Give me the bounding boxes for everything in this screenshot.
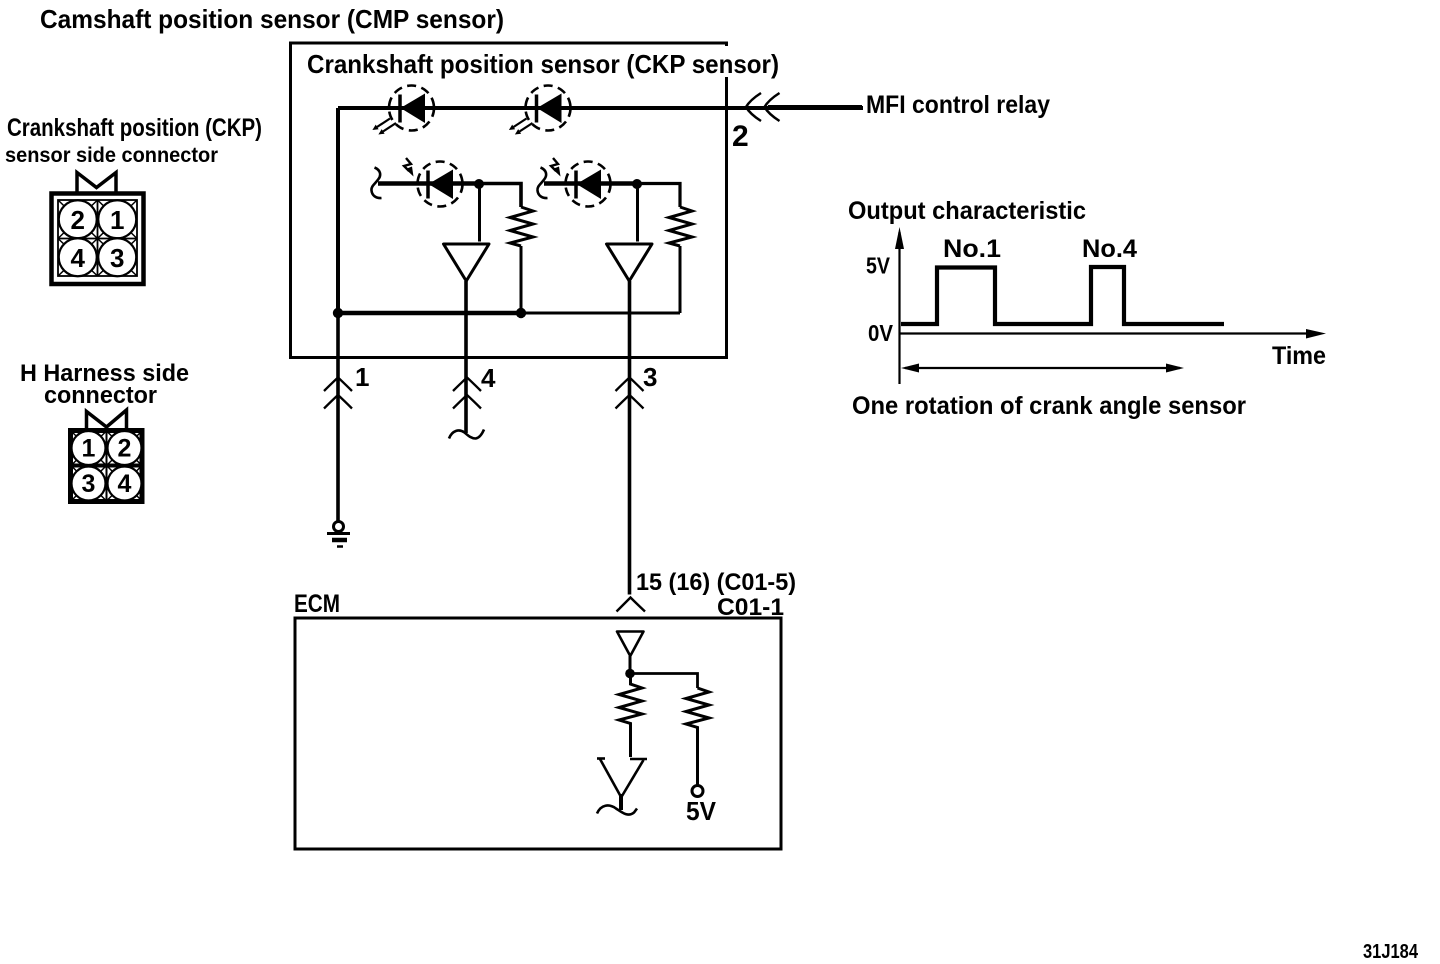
junction node on D4 output <box>632 179 642 189</box>
output waveform <box>901 267 1224 324</box>
op-amp buffer U1 <box>444 244 490 281</box>
svg-text:5V: 5V <box>866 253 891 279</box>
pigtail end of pin 4 <box>449 430 484 439</box>
wire: drop from D4 junction to buffer U2 <box>636 184 639 242</box>
svg-text:3: 3 <box>110 243 124 273</box>
ground symbol inside ECM <box>597 759 647 815</box>
wire: drop from D3 junction to buffer U1 <box>478 184 481 242</box>
label: ECM <box>294 590 340 618</box>
label: 0V level <box>868 320 894 346</box>
svg-text:2: 2 <box>118 435 132 463</box>
wire: top supply bus from MFI relay through LEDs <box>338 106 863 111</box>
wire: U2 output to pin 3 <box>628 281 632 595</box>
svg-text:0V: 0V <box>868 320 894 346</box>
svg-text:One rotation of crank angle se: One rotation of crank angle sensor <box>852 392 1246 420</box>
op-amp buffer U2 <box>607 244 653 281</box>
label: 5V level <box>866 253 891 279</box>
svg-text:15 (16) (C01-5): 15 (16) (C01-5) <box>636 569 796 596</box>
svg-text:ECM: ECM <box>294 590 340 618</box>
resistor R2 <box>669 207 692 313</box>
pin number 4 in sensor connector <box>71 243 86 273</box>
CKP sensor box outline <box>291 43 783 358</box>
svg-text:3: 3 <box>82 470 96 498</box>
CKP sensor side connector drawing <box>52 173 144 285</box>
pin number 1 in sensor connector <box>110 205 124 235</box>
pin number 2 <box>732 120 749 153</box>
label: No.4 pulse <box>1082 235 1137 263</box>
svg-text:5V: 5V <box>686 796 717 826</box>
graph time axis with arrow <box>900 329 1327 339</box>
svg-text:Camshaft position sensor (CMP: Camshaft position sensor (CMP sensor) <box>40 4 504 34</box>
resistor R1 <box>510 207 533 313</box>
buffer U3 inside ECM <box>617 632 644 657</box>
junction node bus left <box>333 308 343 318</box>
junction node bus middle <box>516 308 526 318</box>
pin number 3 in sensor connector <box>110 243 124 273</box>
LED D1 (left light emitting diode) <box>389 86 434 131</box>
svg-text:2: 2 <box>71 205 85 235</box>
label: Crankshaft position sensor (CKP sensor) <box>307 49 779 79</box>
ECM box outline <box>295 618 781 849</box>
pin number 4 <box>481 363 496 393</box>
svg-text:31J184: 31J184 <box>1363 941 1419 963</box>
junction node in ECM <box>625 669 635 679</box>
one rotation span arrow <box>901 364 1184 373</box>
label: H Harness side connector <box>20 360 189 409</box>
label: Time <box>1272 342 1326 370</box>
svg-text:4: 4 <box>118 470 132 498</box>
connector chevron at ECM input <box>617 598 646 612</box>
H harness side connector drawing <box>71 410 143 502</box>
svg-text:Output characteristic: Output characteristic <box>848 197 1086 225</box>
5V terminal <box>692 786 703 797</box>
wire: photodiode D3 row with pigtail squiggle <box>371 168 521 208</box>
pin number 2 in harness connector <box>118 435 132 463</box>
junction node on D3 output <box>474 179 484 189</box>
svg-text:1: 1 <box>110 205 124 235</box>
svg-text:4: 4 <box>71 243 86 273</box>
pin number 3 <box>643 362 657 392</box>
label: pin 15 (16) (C01-5) <box>636 569 796 596</box>
wire: photodiode D4 row with pigtail squiggle <box>537 168 680 208</box>
MFI control relay feed chevrons <box>746 93 780 121</box>
svg-text:No.4: No.4 <box>1082 235 1137 263</box>
label: C01-1 <box>717 594 784 621</box>
photodiode D3 <box>418 162 463 207</box>
pin number 4 in harness connector <box>118 470 132 498</box>
wire: branch to pull-up resistor R4 <box>630 674 698 689</box>
pin number 2 in sensor connector <box>71 205 85 235</box>
photodiode D4 <box>566 162 611 207</box>
svg-text:No.1: No.1 <box>943 235 1001 263</box>
label: Crankshaft position (CKP) sensor side connector <box>5 114 262 167</box>
svg-text:connector: connector <box>44 382 157 409</box>
resistor R3 <box>619 674 642 758</box>
LED D2 (right light emitting diode) <box>526 86 571 131</box>
svg-text:1: 1 <box>355 362 369 392</box>
label: Output characteristic <box>848 197 1086 225</box>
connector chevrons on pin 1 <box>324 378 352 409</box>
light emission arrows of D2 <box>509 119 533 135</box>
wire: bottom ground bus inside CKP box <box>338 311 680 316</box>
svg-text:sensor side connector: sensor side connector <box>5 144 218 167</box>
pin number 1 <box>355 362 369 392</box>
label: drawing number 31J184 <box>1363 941 1419 963</box>
svg-text:3: 3 <box>643 362 657 392</box>
light emission arrows of D1 <box>372 119 396 135</box>
svg-text:Crankshaft position (CKP): Crankshaft position (CKP) <box>7 114 262 142</box>
connector chevrons on pin 3 <box>616 378 644 409</box>
pin number 1 in harness connector <box>82 435 96 463</box>
svg-text:2: 2 <box>732 120 749 153</box>
label: One rotation of crank angle sensor <box>852 392 1246 420</box>
connector chevrons on pin 4 <box>453 378 481 409</box>
wire: U1 output to pin 4 <box>464 281 468 433</box>
resistor R4 <box>686 688 709 786</box>
label: 5V <box>686 796 717 826</box>
svg-text:MFI control relay: MFI control relay <box>866 91 1050 119</box>
svg-text:Crankshaft position sensor (CK: Crankshaft position sensor (CKP sensor) <box>307 49 779 79</box>
ground symbol at pin 1 <box>327 522 350 547</box>
wire: pin 1 lead to ground <box>336 313 340 521</box>
light arrow into photodiode D3 <box>404 158 414 177</box>
graph Y axis with arrow <box>895 227 904 384</box>
pin number 3 in harness connector <box>82 470 96 498</box>
wire: left vertical drop from top bus to bottom bus <box>336 108 340 313</box>
label: No.1 pulse <box>943 235 1001 263</box>
svg-text:1: 1 <box>82 435 96 463</box>
light arrow into photodiode D4 <box>551 158 561 177</box>
svg-text:Time: Time <box>1272 342 1326 370</box>
svg-text:4: 4 <box>481 363 496 393</box>
wire: U3 output to node <box>629 656 632 674</box>
label: MFI control relay <box>866 91 1050 119</box>
label: Camshaft position sensor (CMP sensor) title <box>40 4 504 34</box>
